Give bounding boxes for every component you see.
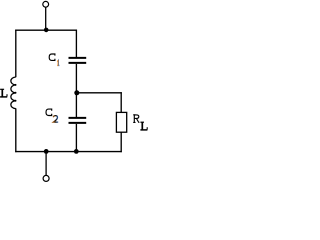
label RL bbox=[133, 115, 147, 130]
wire C1 top lead bbox=[75, 30, 77, 57]
junction middle node bbox=[74, 90, 79, 95]
inductor L coil bbox=[11, 77, 17, 109]
wire middle horizontal to right branch bbox=[77, 92, 122, 94]
label L bbox=[0, 89, 7, 97]
wire C1 bottom lead bbox=[75, 64, 77, 93]
label C1 bbox=[49, 54, 59, 65]
wire top horizontal bbox=[15, 29, 77, 31]
wire left vertical lower bbox=[15, 108, 17, 152]
capacitor C1 bbox=[69, 58, 87, 63]
terminal top port bbox=[43, 1, 49, 7]
wire left vertical upper bbox=[15, 30, 17, 78]
wire bottom horizontal bbox=[15, 151, 122, 153]
wire right lead down to resistor bbox=[120, 92, 122, 112]
junction bottom left node bbox=[44, 149, 49, 154]
wire C2 bottom lead bbox=[75, 124, 77, 152]
capacitor C2 bbox=[69, 118, 87, 123]
junction top node bbox=[44, 28, 49, 33]
label C2 bbox=[46, 109, 58, 122]
terminal bottom port bbox=[43, 175, 49, 181]
wire C2 top lead bbox=[75, 93, 77, 117]
wire resistor bottom lead bbox=[120, 132, 122, 152]
resistor RL bbox=[116, 112, 126, 132]
wire top terminal stub bbox=[45, 7, 47, 30]
junction bottom middle node bbox=[74, 149, 79, 154]
wire bottom terminal stub bbox=[45, 152, 47, 176]
